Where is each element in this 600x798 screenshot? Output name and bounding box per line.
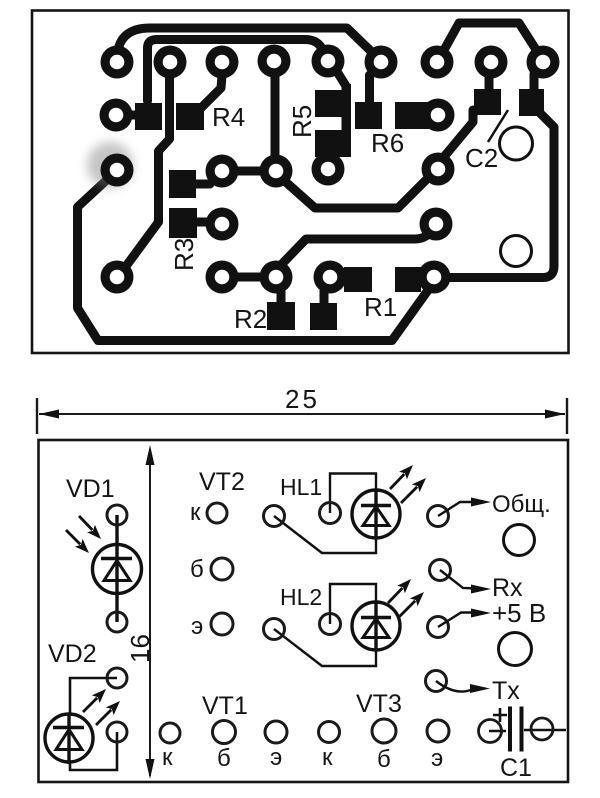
svg-text:R3: R3 [169, 238, 199, 271]
svg-text:HL2: HL2 [280, 584, 322, 610]
svg-text:R1: R1 [364, 292, 397, 322]
svg-text:HL1: HL1 [280, 474, 322, 500]
svg-text:Tx: Tx [492, 677, 520, 705]
svg-text:VT3: VT3 [356, 690, 402, 718]
svg-text:э: э [431, 745, 443, 772]
svg-text:к: к [190, 499, 201, 526]
svg-text:к: к [162, 744, 173, 771]
svg-text:R2: R2 [234, 304, 267, 334]
svg-text:16: 16 [125, 634, 155, 663]
svg-text:VD2: VD2 [48, 640, 97, 668]
svg-text:25: 25 [285, 384, 320, 414]
svg-text:C1: C1 [500, 754, 532, 782]
svg-text:R6: R6 [371, 128, 404, 158]
svg-text:э: э [191, 613, 203, 640]
svg-text:э: э [270, 744, 282, 771]
svg-text:к: к [322, 744, 333, 771]
svg-text:VD1: VD1 [66, 475, 115, 503]
svg-text:+5 В: +5 В [492, 598, 546, 628]
svg-text:б: б [377, 746, 391, 773]
svg-text:б: б [190, 556, 204, 583]
svg-text:C2: C2 [465, 143, 498, 173]
svg-text:б: б [217, 745, 231, 772]
svg-text:Общ.: Общ. [492, 491, 551, 518]
svg-text:VT1: VT1 [202, 692, 248, 720]
svg-text:VT2: VT2 [199, 468, 245, 496]
svg-text:R5: R5 [287, 105, 317, 138]
svg-text:R4: R4 [212, 102, 245, 132]
